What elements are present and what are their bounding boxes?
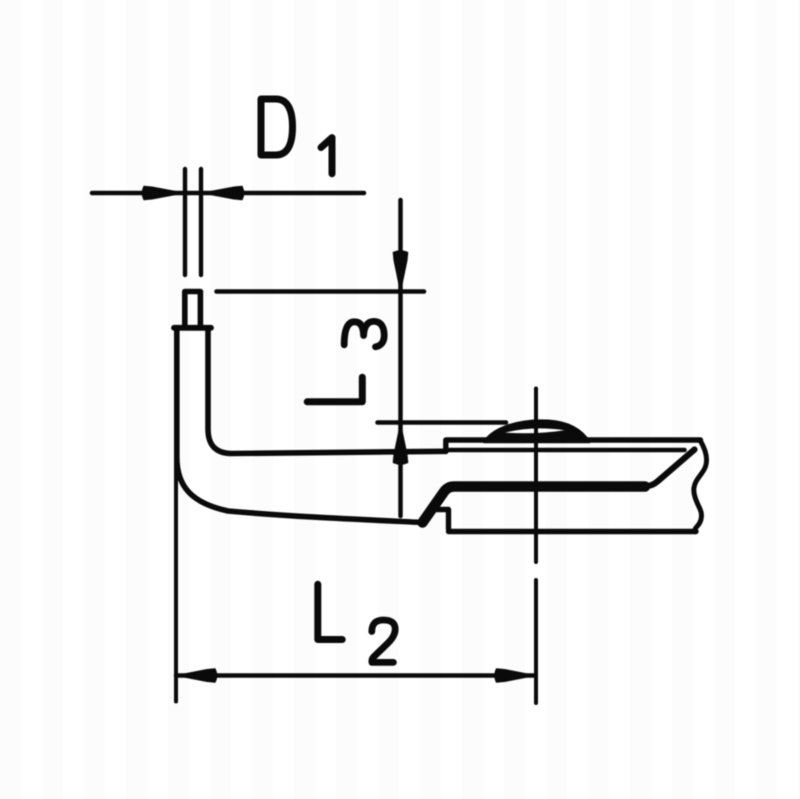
label L	[318, 584, 342, 639]
label D subscript 1	[321, 138, 332, 174]
part: pin tip	[185, 292, 201, 327]
dimension L3: up arrowhead	[393, 424, 407, 464]
label D	[261, 99, 293, 155]
dimension D1: right arrowhead	[204, 186, 244, 199]
dimension L3: top extension line	[217, 289, 425, 294]
dimension L3: dimension line	[398, 200, 403, 516]
part: plate left edge and top edge	[446, 440, 701, 452]
dimension D1: left extension line	[183, 169, 187, 275]
dimension L2: right arrowhead	[495, 669, 535, 682]
dimension D1: dimension line	[92, 191, 364, 196]
dimension L2: left arrowhead	[177, 669, 217, 682]
part: bottom edge	[449, 529, 697, 534]
part: inner edge and arm top edge	[208, 328, 446, 454]
dimension L2: dimension line	[176, 673, 536, 678]
dimension L3: down arrowhead	[393, 251, 407, 291]
part: shoulder top edge	[174, 325, 211, 331]
part: plate bottom edge	[446, 448, 685, 453]
centerline	[534, 389, 538, 704]
dimension D1: left arrowhead	[142, 186, 182, 199]
dimension D1: right extension line	[199, 169, 203, 275]
part: weld dome	[484, 421, 590, 442]
label L subscript 3 (rotated)	[344, 321, 384, 346]
part: outer-left edge and bottom edge	[177, 328, 423, 523]
part: step ledge	[434, 510, 449, 530]
part: slot diagonal	[643, 450, 695, 487]
label L (rotated)	[307, 377, 362, 402]
part: break line	[694, 441, 707, 532]
dimension L3: bottom extension line	[378, 420, 507, 425]
part: slot thick band	[423, 487, 646, 523]
dimension L2: left extension line	[174, 456, 178, 702]
label L subscript 2	[372, 620, 395, 662]
part: weld dome inner highlight	[505, 428, 565, 433]
